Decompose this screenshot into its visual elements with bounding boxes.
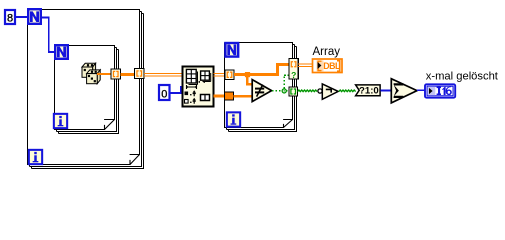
for loop 2 frame (main sheet) bbox=[225, 43, 294, 129]
boolean to 0-1 node ?1:0 bbox=[356, 85, 381, 97]
constant 0 bbox=[159, 85, 170, 101]
svg-text:x-mal gelöscht: x-mal gelöscht bbox=[426, 71, 499, 83]
NOT gate bbox=[318, 84, 338, 99]
not equal? comparator bbox=[252, 80, 271, 102]
wire 8 to outer N bbox=[16, 16, 27, 18]
wire outer tunnel to array function (2D array, double line) bbox=[144, 73, 182, 76]
svg-text:8: 8 bbox=[7, 13, 13, 25]
for loop 2 frame (sheet 3) bbox=[229, 47, 298, 132]
for loop inner frame (main sheet) bbox=[55, 46, 116, 131]
solid tunnel (loop 2 left border) bbox=[225, 92, 234, 100]
DBL array indicator bbox=[313, 59, 343, 73]
iteration terminal i (loop 2) bbox=[227, 112, 240, 126]
wire inner tunnel to outer tunnel (1D array) bbox=[121, 73, 135, 76]
for loop 2 frame (sheet 2) bbox=[227, 45, 296, 130]
wire ?1:0 to sum bbox=[380, 89, 391, 91]
for loop inner frame (sheet 3) bbox=[59, 50, 120, 134]
svg-text:?1:0: ?1:0 bbox=[359, 85, 379, 96]
loop count terminal N (outer loop) bbox=[28, 9, 41, 24]
for loop outer frame (sheet 3) bbox=[32, 14, 145, 169]
auto-index tunnel (loop 2 left border) bbox=[225, 70, 234, 80]
random number dice icon bbox=[82, 63, 100, 83]
loop count terminal N (loop 2) bbox=[225, 43, 238, 57]
label x-mal geloescht bbox=[426, 71, 499, 83]
page fold loop 2 bbox=[283, 120, 292, 128]
svg-text:?: ? bbox=[291, 70, 296, 80]
boolean array wire tunnel to NOT gate (zigzag) bbox=[298, 90, 318, 92]
wire 0 to array function bbox=[170, 87, 183, 93]
svg-text:DBL: DBL bbox=[323, 61, 341, 71]
wire conditional tunnel to DBL indicator (array, double line) bbox=[298, 64, 312, 67]
page fold outer loop bbox=[130, 155, 140, 165]
svg-text:Array: Array bbox=[313, 46, 341, 58]
conditional auto-index tunnel (loop 2 right border) bbox=[289, 59, 298, 80]
label Array bbox=[313, 46, 341, 58]
constant 8 bbox=[5, 10, 15, 25]
wire index tunnel to junction to conditional tunnel bbox=[234, 65, 289, 75]
wire dice to inner tunnel bbox=[97, 73, 111, 75]
boolean junction ring bbox=[282, 88, 287, 93]
boolean wire not-equal to junction to bool tunnel bbox=[272, 90, 289, 92]
I16 indicator bbox=[425, 84, 455, 97]
iteration terminal i (outer loop) bbox=[29, 150, 42, 164]
for loop outer frame (main sheet) bbox=[28, 10, 141, 166]
page fold inner loop bbox=[104, 120, 114, 130]
auto-index tunnel (outer loop right border) bbox=[135, 69, 145, 79]
delete from array function bbox=[183, 67, 214, 107]
auto-index tunnel (inner loop right border) bbox=[111, 69, 121, 79]
boolean wire junction up to conditional tunnel bbox=[284, 75, 289, 88]
wire junction drop to not-equal top input bbox=[246, 75, 252, 85]
add array elements (sigma) bbox=[391, 79, 417, 103]
for loop outer frame (sheet 2) bbox=[30, 12, 143, 167]
wire solid tunnel to not-equal bottom input bbox=[234, 95, 253, 98]
boolean array wire NOT gate to ?1:0 (zigzag) bbox=[339, 90, 356, 92]
wire array function to loop2 solid tunnel (1D array) bbox=[214, 95, 225, 98]
svg-text:0: 0 bbox=[161, 89, 167, 101]
wire junction dot bbox=[245, 72, 250, 77]
boolean auto-index tunnel (loop 2 right border) bbox=[289, 87, 298, 96]
wire array function to loop2 index tunnel (2D array, double line) bbox=[214, 73, 226, 76]
iteration terminal i (inner loop) bbox=[54, 114, 67, 128]
for loop inner frame (sheet 2) bbox=[57, 48, 118, 132]
wire outer N to inner N bbox=[42, 18, 54, 53]
wire sum to I16 indicator bbox=[417, 89, 425, 91]
loop count terminal N (inner loop) bbox=[55, 45, 68, 59]
